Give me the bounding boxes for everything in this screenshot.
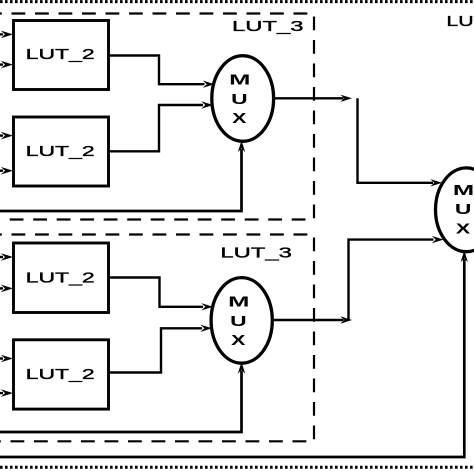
wire B1 output to U1 — [110, 56, 215, 88]
wire select s1 to U2 — [0, 362, 245, 432]
LUT_4 cluster dotted border top — [0, 0, 474, 3]
svg-text:LUT_3: LUT_3 — [232, 19, 304, 35]
LUT_2 box B1 — [14, 21, 109, 90]
svg-text:LUT_4: LUT_4 — [446, 14, 474, 30]
svg-text:LUT_3: LUT_3 — [220, 245, 292, 261]
svg-text:M: M — [453, 182, 474, 199]
mux U1 — [212, 56, 274, 142]
LUT_4 cluster dotted border bottom — [0, 466, 474, 469]
svg-text:LUT_2: LUT_2 — [26, 367, 95, 383]
wire input i2 to B2 — [0, 132, 13, 140]
LUT_3 upper cluster dashed box — [0, 14, 314, 220]
svg-text:U: U — [231, 91, 248, 108]
LUT_2 box B3 — [14, 243, 109, 313]
wire B2 output to U1 — [110, 101, 213, 151]
mux U2 — [211, 278, 272, 364]
svg-text:U: U — [230, 313, 247, 330]
wire input i7 to B4 — [0, 389, 13, 397]
wire input i4 to B3 — [0, 253, 13, 261]
LUT_2 box B4 — [14, 340, 109, 409]
wire U1 to U3 — [358, 98, 443, 186]
wire B3 output to U2 — [110, 278, 213, 311]
wire input i1 to B1 — [0, 61, 13, 69]
LUT_2 box B2 — [14, 117, 109, 186]
svg-text:LUT_2: LUT_2 — [26, 47, 95, 63]
svg-text:LUT_2: LUT_2 — [26, 270, 95, 286]
svg-text:X: X — [231, 332, 245, 349]
wire select s0 to U1 — [0, 141, 245, 212]
svg-text:M: M — [228, 294, 249, 311]
wire input i0 to B1 — [0, 31, 13, 39]
svg-text:U: U — [455, 201, 472, 218]
LUT_3 lower cluster dashed box — [0, 235, 314, 442]
wire U2 to U3 — [349, 236, 444, 320]
wire select s2 to U3 — [0, 251, 468, 458]
wire input i3 to B2 — [0, 167, 13, 175]
wire U2 output — [272, 316, 352, 323]
svg-text:LUT_2: LUT_2 — [26, 144, 95, 160]
svg-text:X: X — [456, 220, 470, 237]
svg-text:X: X — [232, 110, 246, 127]
svg-text:M: M — [229, 72, 250, 89]
wire B4 output to U2 — [110, 325, 212, 373]
wire U1 output — [274, 95, 353, 102]
wire input i6 to B4 — [0, 355, 13, 363]
wire input i5 to B3 — [0, 285, 13, 293]
mux U3 — [436, 168, 474, 252]
